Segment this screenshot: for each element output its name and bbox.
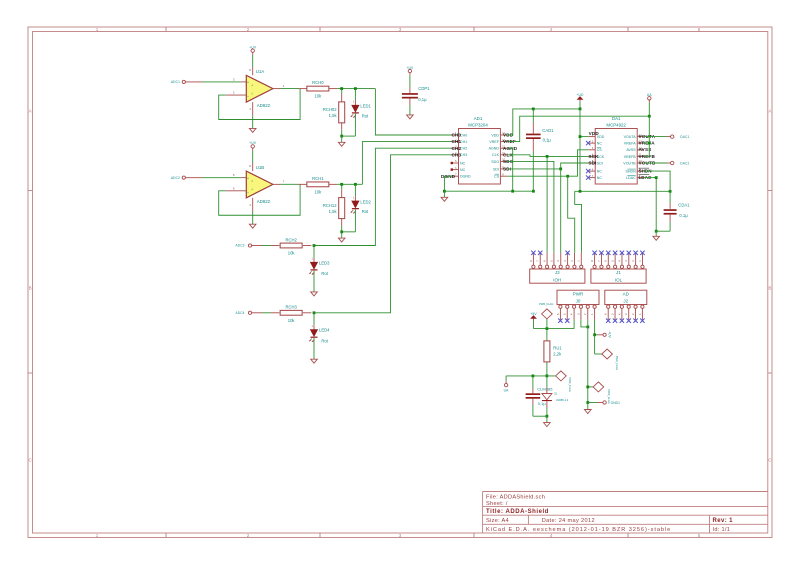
- wire junction to LED2: [354, 184, 356, 196]
- svg-text:Rot: Rot: [362, 209, 369, 214]
- svg-text:VDD: VDD: [589, 131, 600, 136]
- svg-text:LDAC: LDAC: [626, 176, 636, 180]
- wire AGND to ground rail: [507, 148, 513, 191]
- svg-text:LED4: LED4: [319, 328, 330, 333]
- no-connect X J1 pin 3: [627, 251, 631, 255]
- svg-text:+UV: +UV: [607, 331, 611, 338]
- svg-text:U1B: U1B: [256, 165, 265, 170]
- svg-text:J0: J0: [576, 299, 581, 304]
- pin 9 of AD1: [500, 166, 507, 169]
- svg-text:+5V: +5V: [530, 312, 537, 316]
- wire junction to RCH02: [341, 89, 343, 94]
- junction: [546, 375, 549, 378]
- wire connector to resistor: [262, 245, 271, 247]
- svg-text:3: 3: [399, 533, 402, 538]
- svg-text:10k: 10k: [314, 189, 322, 194]
- no-connect X J3 pin 8: [531, 251, 535, 255]
- svg-text:VDD: VDD: [491, 133, 499, 137]
- svg-text:CS: CS: [597, 148, 603, 152]
- svg-text:RCH12: RCH12: [323, 203, 337, 208]
- resistor RCH3: [271, 305, 312, 323]
- svg-text:VOUTA: VOUTA: [624, 135, 637, 139]
- pin 6 of J3: [542, 253, 548, 269]
- pin 3 of J1: [624, 253, 630, 269]
- no-connect X J1 pin 7: [599, 251, 603, 255]
- svg-text:NC: NC: [597, 170, 603, 174]
- svg-text:VREFB: VREFB: [624, 155, 637, 159]
- svg-text:AVSS: AVSS: [626, 148, 636, 152]
- svg-text:AD822: AD822: [257, 103, 271, 108]
- pin 10 of AD1: [500, 159, 507, 162]
- svg-text:LED2: LED2: [360, 199, 371, 204]
- wire LED3 to ground: [313, 271, 315, 292]
- ground below CDP1: [407, 115, 414, 119]
- svg-text:AGND: AGND: [489, 147, 500, 151]
- junction: [593, 333, 596, 336]
- svg-text:NC: NC: [460, 168, 466, 172]
- label VOUTA: [639, 134, 656, 139]
- wire junction to LED4: [313, 313, 315, 325]
- pin 3 of DA1: [589, 147, 596, 150]
- pin 2 (-) of U1A: [226, 91, 247, 96]
- pin 3 of AD1: [452, 145, 459, 148]
- pin 4 of DA1: [589, 154, 596, 157]
- no-connect X J2 pin 3: [627, 319, 631, 323]
- wire net CH1 from RCH1 to AD1 CH1: [362, 142, 452, 185]
- wire SHDN to +UD rail: [644, 171, 670, 191]
- label SDI at DA1: [588, 160, 596, 165]
- capacitor CDA1 0,1u: [664, 191, 691, 231]
- junction: [546, 327, 549, 330]
- label VREFB: [639, 154, 656, 159]
- bottom junction: [340, 230, 343, 233]
- pin 5 of DA1: [589, 160, 596, 163]
- svg-text:Title: ADDA-Shield: Title: ADDA-Shield: [486, 509, 549, 515]
- wire J0 pin 6 to +UV: [595, 320, 603, 335]
- wire U1A pin 4 to ground: [252, 115, 254, 128]
- LED LED2 red: [351, 196, 372, 214]
- svg-text:Size: A4: Size: A4: [486, 518, 509, 524]
- wire CDA1 bottom to ground: [656, 231, 670, 236]
- label SDO: [503, 159, 514, 164]
- svg-text:DA1: DA1: [612, 116, 621, 121]
- pin 6 of AD1: [452, 167, 459, 170]
- wire SDI riser to J3 pin 4: [560, 169, 562, 253]
- svg-text:10k: 10k: [288, 318, 296, 323]
- connector J1 IOL: [591, 269, 646, 283]
- pin 10 of DA1: [637, 160, 644, 163]
- label AVSS: [639, 147, 652, 152]
- svg-text:DAC2: DAC2: [680, 162, 689, 166]
- wire +UD down to rail node: [579, 102, 581, 109]
- power flag PWR_FLAG on +5V: [539, 302, 553, 328]
- svg-text:SDI: SDI: [597, 161, 603, 165]
- wire ADC2 to U1B pin 5: [203, 177, 241, 179]
- connector GND1: [588, 401, 620, 405]
- title block: [483, 492, 768, 534]
- junction: [532, 375, 535, 378]
- power +5V symbol: [530, 312, 537, 321]
- wire net CH0 from RCH0 to AD1 CH0: [375, 89, 452, 135]
- op-amp U1B (AD822): [246, 165, 273, 204]
- junction: [586, 401, 589, 404]
- pin 8 of AD1: [500, 173, 507, 176]
- wire U1 output to RCH1: [280, 183, 299, 185]
- svg-text:0.1µ: 0.1µ: [679, 213, 688, 218]
- pin 9 of DA1: [637, 168, 644, 171]
- wire +5V rail to J0 pin 3: [534, 320, 575, 329]
- pin 2 of J2: [631, 305, 637, 320]
- pin 11 of AD1: [500, 152, 507, 155]
- pin 4 of J0: [569, 305, 575, 320]
- wire ADC1 to U1A pin 3: [203, 81, 241, 83]
- svg-text:CH3: CH3: [452, 152, 462, 157]
- pin 2 of J1: [631, 253, 637, 269]
- pin 4 of J1: [617, 253, 623, 269]
- svg-text:Rot: Rot: [362, 113, 369, 118]
- svg-text:CS: CS: [494, 175, 500, 179]
- label CH2: [452, 146, 462, 151]
- svg-text:PWR_FLAG: PWR_FLAG: [615, 356, 619, 370]
- label VOUTB: [639, 160, 657, 165]
- no-connect X J3 pin 3: [565, 251, 569, 255]
- wire bottom rail: [342, 231, 356, 233]
- capacitor CAD1 0,1u: [526, 109, 554, 191]
- svg-text:CH2: CH2: [452, 146, 462, 151]
- pin 6 of J2: [604, 305, 610, 320]
- wire reference rail: [506, 375, 555, 377]
- wire UA down: [648, 103, 650, 117]
- wire RCH02 to bottom junction: [341, 130, 343, 136]
- LED LED3 red: [309, 258, 330, 276]
- pin 5 of J3: [549, 253, 555, 269]
- svg-text:UA: UA: [647, 93, 653, 97]
- svg-text:Rev: 1: Rev: 1: [713, 518, 734, 524]
- pin 13 of AD1: [500, 139, 507, 142]
- svg-text:SCK: SCK: [588, 154, 599, 159]
- svg-text:AD: AD: [623, 291, 630, 296]
- svg-text:RCH1: RCH1: [312, 176, 324, 181]
- LED LED4 red: [309, 325, 330, 343]
- no-connect X J0 pin 6: [558, 319, 562, 323]
- svg-text:SHDN: SHDN: [626, 170, 637, 174]
- svg-text:2: 2: [247, 27, 250, 32]
- svg-text:SDI: SDI: [588, 160, 596, 165]
- svg-text:RCH2: RCH2: [285, 237, 297, 242]
- resistor RCH2: [271, 237, 312, 255]
- svg-text:ADC2: ADC2: [171, 176, 180, 180]
- label VDD: [503, 133, 514, 138]
- pin 1 of J3: [577, 253, 583, 269]
- pin 3 (+) of U1A: [233, 77, 246, 82]
- svg-text:CLM385: CLM385: [537, 386, 553, 391]
- label CH1: [452, 139, 462, 144]
- svg-text:File: ADDAShield.sch: File: ADDAShield.sch: [486, 494, 545, 500]
- wire LED4 to ground: [313, 338, 315, 359]
- power +UV above U1B: [249, 141, 257, 151]
- wire net CS from AD1 CS to DA1 CS: [507, 150, 588, 176]
- label SHDN with overline: [639, 168, 653, 173]
- svg-text:5: 5: [698, 533, 701, 538]
- no-connect X J1 pin 2: [633, 251, 637, 255]
- connector DAC1: [644, 135, 690, 139]
- pin 2 of J3: [570, 253, 576, 269]
- svg-text:CDA1: CDA1: [678, 202, 690, 207]
- svg-text:10k: 10k: [288, 251, 296, 256]
- resistor RCH02: [323, 94, 345, 130]
- pin 1 output of U1A: [273, 84, 285, 89]
- wire RCH1 to junctions: [337, 183, 362, 185]
- svg-text:J3: J3: [555, 270, 560, 275]
- svg-text:2: 2: [247, 533, 250, 538]
- svg-text:DAC1: DAC1: [680, 135, 689, 139]
- resistor RU1 2,2k: [544, 329, 562, 376]
- svg-text:5: 5: [698, 27, 701, 32]
- pin 5 of J1: [611, 253, 617, 269]
- pin 1 of DA1: [589, 134, 596, 137]
- wire CS riser to J3 pin 2: [568, 176, 575, 253]
- wire junction to LED1: [354, 89, 356, 101]
- wire J0 pin 4 to GND net: [581, 320, 588, 327]
- pin 6 of DA1: [589, 168, 596, 171]
- wire +UD vertical to DA1 VDD and rail: [580, 109, 589, 191]
- svg-text:1: 1: [96, 533, 99, 538]
- connector ADC input: [235, 244, 262, 248]
- wire net CH3 from RCH3 to AD1 CH3: [314, 155, 452, 313]
- svg-text:CAD1: CAD1: [542, 128, 554, 133]
- pin 12 of AD1: [500, 145, 507, 148]
- junction: [586, 326, 589, 329]
- no-connect X J0 pin 5: [565, 319, 569, 323]
- junction: [648, 115, 651, 118]
- pin 4 of J3: [556, 253, 562, 269]
- label VREFA: [639, 141, 656, 146]
- svg-text:ADC4: ADC4: [235, 311, 244, 315]
- junction: [566, 175, 569, 178]
- label DGND: [441, 174, 456, 179]
- wire LED2 to bottom junction: [354, 209, 356, 231]
- pin 3 of J2: [624, 305, 630, 320]
- no-connect X DA1 pin 6: [586, 169, 590, 173]
- label LDAC with overline: [639, 175, 652, 180]
- svg-text:RCH0: RCH0: [312, 80, 324, 85]
- junction: [655, 230, 658, 233]
- ground: [338, 238, 345, 242]
- pin 8 of J3: [529, 253, 535, 269]
- diode D1 LM385-1.2 voltage reference: [542, 376, 569, 416]
- wire UA to DA1 VREFA and VREFB: [644, 116, 650, 156]
- power flag PWR_FLAG on +UV: [595, 335, 619, 370]
- svg-text:DGND: DGND: [460, 175, 471, 179]
- svg-text:MCP4922: MCP4922: [606, 123, 626, 128]
- svg-text:CH1: CH1: [452, 139, 462, 144]
- wire RCH0 to junctions: [337, 88, 375, 90]
- pin 7 of J1: [597, 253, 603, 269]
- wire +UD rail to J3 pin 1: [575, 191, 582, 253]
- pin 3 of J3: [563, 253, 569, 269]
- pin 14 of AD1: [500, 132, 507, 135]
- pin 8 of J1: [590, 253, 596, 269]
- label VDD at DA1: [589, 131, 600, 136]
- wire UA to AD1 VREF: [507, 116, 649, 141]
- wire U1 output to RCH0: [280, 88, 299, 90]
- pin 7 of DA1: [589, 175, 596, 178]
- IC DA1 MCP4922 digital-analog converter: [595, 116, 637, 184]
- power +UD symbol: [576, 93, 584, 102]
- svg-text:NC: NC: [460, 161, 466, 165]
- pin 14 of DA1: [637, 134, 644, 137]
- wire to ground: [546, 416, 548, 422]
- LED LED1 red: [351, 101, 372, 119]
- svg-text:GND1: GND1: [611, 401, 621, 405]
- pin 3 of J0: [576, 305, 582, 320]
- pin 12 of DA1: [637, 147, 644, 150]
- svg-text:RCH3: RCH3: [285, 305, 297, 310]
- power +UV above U1A: [249, 45, 257, 55]
- wire net CH2 from RCH2 to AD1 CH2: [314, 148, 452, 245]
- pin 8 V+ of U1A: [249, 67, 252, 75]
- junction: [354, 87, 357, 90]
- junction: [559, 168, 562, 171]
- connector J2 AD: [605, 290, 647, 304]
- no-connect X J2 pin 5: [613, 319, 617, 323]
- svg-text:CLK: CLK: [492, 153, 500, 157]
- pin 6 (-) of U1B: [226, 186, 247, 191]
- pin 5 of J2: [610, 305, 616, 320]
- svg-text:MCP3204: MCP3204: [468, 123, 488, 128]
- svg-text:Id: 1/1: Id: 1/1: [713, 527, 731, 533]
- wire ground rail GND: [444, 190, 533, 192]
- ground below CDA1: [653, 236, 660, 240]
- pin 1 of J0: [590, 305, 596, 320]
- label SCK at DA1: [588, 154, 599, 159]
- svg-text:PWR_FLAG: PWR_FLAG: [539, 302, 553, 306]
- wire LED1 to bottom junction: [354, 114, 356, 136]
- wire connector to resistor: [262, 312, 271, 314]
- pin 2 of J0: [583, 305, 589, 320]
- ground below AD1: [441, 191, 448, 201]
- svg-text:NC: NC: [597, 142, 603, 146]
- ground: [311, 292, 318, 296]
- wire U1B pin 4 to ground: [252, 211, 254, 224]
- junction: [532, 190, 535, 193]
- svg-text:B: B: [29, 286, 32, 291]
- power UA symbol: [647, 93, 653, 103]
- pin 4 of AD1: [452, 152, 459, 155]
- pin 5 of AD1: [452, 160, 459, 163]
- svg-text:LM385-1.2: LM385-1.2: [556, 398, 569, 402]
- pin 4 of J2: [617, 305, 623, 320]
- ground: [338, 142, 345, 146]
- wire CLK riser to J3 pin 6: [546, 156, 548, 252]
- junction: [443, 190, 446, 193]
- ground: [311, 359, 318, 363]
- svg-text:SDO: SDO: [491, 160, 499, 164]
- wire RCH12 to bottom junction: [341, 226, 343, 232]
- wire +UD rail: [575, 190, 670, 192]
- wire junction to RCH12: [341, 184, 343, 189]
- wire LDAC to ground: [644, 178, 656, 232]
- svg-text:VREF: VREF: [489, 140, 499, 144]
- no-connect X J1 pin 4: [620, 251, 624, 255]
- label AGND: [503, 146, 518, 151]
- svg-text:SDI: SDI: [493, 167, 499, 171]
- svg-text:KiCad E.D.A. eeschema (2012-0: KiCad E.D.A. eeschema (2012-01-19 BZR 32…: [486, 527, 671, 533]
- junction: [648, 142, 651, 145]
- svg-text:B: B: [768, 286, 771, 291]
- pin 5 of J0: [563, 305, 569, 320]
- pin 6 of J0: [556, 305, 562, 320]
- svg-text:4: 4: [550, 27, 553, 32]
- svg-text:2,2k: 2,2k: [553, 352, 562, 357]
- pin 5 (+) of U1B: [233, 173, 246, 178]
- wire to ground: [341, 136, 343, 142]
- no-connect X J2 pin 4: [620, 319, 624, 323]
- wire net CLK from AD1 CLK to DA1 SCK: [507, 155, 588, 157]
- junction: [340, 87, 343, 90]
- no-connect X J3 pin 7: [538, 251, 542, 255]
- ground below LM385: [544, 423, 551, 427]
- connector ADC2: [171, 176, 203, 180]
- junction: [586, 386, 589, 389]
- svg-text:ADC3: ADC3: [235, 244, 244, 248]
- IC AD1 MCP3204 analog-digital converter: [459, 116, 501, 184]
- no-connect X DA1 pin 2: [586, 141, 590, 145]
- svg-text:+UD: +UD: [576, 93, 584, 97]
- svg-text:Rot: Rot: [321, 338, 328, 343]
- svg-text:J1: J1: [616, 270, 621, 275]
- svg-text:Sheet: /: Sheet: /: [486, 501, 508, 507]
- resistor RCH0: [299, 80, 338, 98]
- junction: [579, 108, 582, 111]
- pin 7 of J3: [536, 253, 542, 269]
- junction: [669, 190, 672, 193]
- svg-text:Rot: Rot: [321, 271, 328, 276]
- pin 4 V- of U1A: [249, 102, 252, 115]
- svg-text:3: 3: [399, 27, 402, 32]
- wire bottom rail: [342, 135, 356, 137]
- no-connect X J1 pin 1: [640, 251, 644, 255]
- feedback wire U1B output to inverting input: [219, 184, 300, 215]
- svg-text:NC: NC: [597, 176, 603, 180]
- bottom junction: [340, 135, 343, 138]
- svg-text:4: 4: [550, 533, 553, 538]
- junction: [511, 190, 514, 193]
- ground below U1B: [249, 224, 256, 228]
- connector J0 PWR: [557, 290, 599, 304]
- svg-text:AD1: AD1: [474, 116, 483, 121]
- svg-text:CDP1: CDP1: [418, 86, 430, 91]
- svg-text:0,1µ: 0,1µ: [543, 137, 552, 142]
- svg-text:CH0: CH0: [452, 133, 462, 138]
- label CH0: [452, 133, 462, 138]
- svg-text:1,5k: 1,5k: [329, 209, 338, 214]
- wire +UV to U1B pin 8: [252, 151, 254, 163]
- pin 4 V- of U1B: [249, 198, 252, 211]
- power +UV symbol rotated: [603, 331, 611, 338]
- svg-text:J2: J2: [623, 299, 628, 304]
- junction: [655, 176, 658, 179]
- power flag PWR_FLAG on UA rail: [556, 371, 572, 392]
- no-connect X J2 pin 6: [606, 319, 610, 323]
- svg-text:RCH02: RCH02: [323, 107, 337, 112]
- label VREF: [503, 139, 516, 144]
- svg-text:1: 1: [96, 27, 99, 32]
- feedback wire U1A output to inverting input: [219, 89, 300, 120]
- resistor RCH12: [323, 190, 345, 226]
- wire DGND to ground rail: [444, 176, 452, 191]
- no-connect X J2 pin 1: [640, 319, 644, 323]
